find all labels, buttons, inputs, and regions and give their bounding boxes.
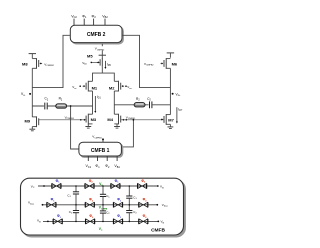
svg-text:M5: M5 [87,53,93,58]
M9 label [25,118,31,123]
wire M9 gate to M3 gate (V_CMFB1) [39,119,86,121]
transistor M9 [32,116,38,127]
pin label VC1 (CMFB1 input) [85,164,91,169]
transistor M8 [32,58,38,69]
wire rail A [38,185,158,187]
node V_B right of rail A [157,185,164,190]
ground M3 [85,124,91,128]
net label V_o (green, rail A) [99,182,103,187]
switch phi1 rail B [113,202,122,207]
M5 label [87,53,93,58]
resistor R2 left [56,104,67,108]
clock label phi2 [89,179,94,184]
capacitor C2 col3 lower [126,205,132,222]
junction left branch [70,105,72,107]
wire right comp branch [114,104,170,106]
VDD supply M8 [29,54,36,59]
C2 label [106,210,110,215]
switch phi2 rail C [85,219,94,224]
V_CMFB1 left arrow [80,119,86,121]
clock label phi2 [143,214,148,219]
capacitor C1 col2 [100,186,106,205]
switch phi2 rail B [139,202,148,207]
M5 gate wire V_b0 [92,61,100,63]
pin label VB2 (CMFB2 input) [102,14,108,19]
wire first-stage right rail [113,91,115,114]
M7 label [168,118,174,123]
capacitor C2 col1 lower [73,205,79,222]
pin label Φ2 (CMFB2 input) [91,14,96,19]
wire CMFB1 left tap [71,106,79,149]
junction [102,185,104,187]
R2 label left [59,97,63,102]
clock label phi1 [51,198,56,203]
wire left output rail [31,68,33,117]
M4 label [107,117,113,122]
CMFB detail outer box [21,178,186,237]
junction [75,204,77,206]
svg-text:CMFB 2: CMFB 2 [87,32,106,38]
junction [129,221,131,223]
wire CMFB1 input tick [106,156,108,161]
C2 label [69,210,73,215]
ground M9 [29,127,35,131]
net label V_b0 [82,61,92,66]
svg-text:M7: M7 [168,118,174,123]
junction [75,221,77,223]
clock label phi1 [117,198,122,203]
M3 label [91,117,97,122]
pin label VC2 (CMFB2 input) [71,14,77,19]
junction right gate wire [133,119,135,121]
junction [75,185,77,187]
net label V_CMFB2 at M8 gate [44,62,54,67]
M1 label [92,85,98,90]
switch phi2 rail A [85,183,94,188]
V_CMFB1 right arrow [122,119,127,121]
clock label phi2 [89,198,94,203]
input label Vin+ [125,85,133,90]
M5 gate arrow [97,61,100,63]
switch phi1 rail C [53,219,62,224]
pin label Φ2 (CMFB1 input) [105,164,110,169]
wire rail B [43,204,158,206]
switch phi2 rail B [85,202,94,207]
clock label phi1 [57,214,62,219]
node V_bias right [156,203,168,208]
M2 gate arrow [122,85,125,87]
CMFB title [151,227,165,233]
node V_B right of rail C [157,220,164,225]
M8 label [22,62,28,67]
svg-text:M4: M4 [107,117,113,122]
node V_o- [21,92,31,97]
M6 gate arrow [161,62,164,64]
wire diff-pair yoke [93,73,115,81]
wire right output rail [169,68,171,114]
transistor M2 [114,81,120,92]
CMFB2 title [87,32,106,38]
wire CMFB2 right sense [122,35,170,87]
switch phi1 rail B [47,202,56,207]
clock label phi2 [89,214,94,219]
junction [102,204,104,206]
wire CMFB1 input tick [116,156,118,161]
svg-text:M8: M8 [22,62,28,67]
M1 gate arrow [83,85,86,87]
clock label phi2 [141,179,146,184]
wire V_CMFB2 output [101,44,103,55]
C1 label [106,194,110,199]
C1 label [133,195,137,200]
C2 label right [147,97,151,102]
M7 gate arrow [161,118,163,120]
svg-text:M3: M3 [91,117,97,122]
node V_o+ [172,92,181,97]
M2 label [109,85,115,90]
svg-text:M2: M2 [109,85,115,90]
pin label VB1 (CMFB1 input) [114,164,120,169]
svg-text:M1: M1 [92,85,98,90]
junction [102,221,104,223]
wire left comp branch [32,105,92,107]
switch phi1 rail A [111,183,120,188]
R2 label right [136,97,140,102]
node V_CMFB2 label [93,46,107,51]
net label V_o (green, below rail C) [99,227,103,232]
pin label Φ1 (CMFB1 input) [95,164,100,169]
current I_D1 [94,95,101,113]
wire CMFB2 input tick [104,19,106,26]
wire CMFB2 input tick [93,19,95,26]
pin label Φ1 (CMFB2 input) [82,14,87,19]
junction [129,185,131,187]
current I_D5 [104,61,111,69]
C1 label [67,193,71,198]
svg-text:M9: M9 [25,118,31,123]
wire CMFB2 left sense [32,35,70,87]
net label V_CMFB1 right [126,115,136,120]
switch phi2 rail A [137,183,146,188]
wire CMFB2 input tick [83,19,85,26]
transistor M6 [164,58,170,69]
svg-text:M6: M6 [172,62,178,67]
CMFB2 block box [70,25,123,44]
transistor M3 [86,114,92,125]
wire CMFB1 input tick [97,156,99,161]
C2 label [133,210,137,215]
node V_bias left [28,201,43,206]
clock label phi1 [56,179,61,184]
transistor M7 [164,114,170,125]
wire CMFB1 input tick [87,156,89,161]
VDD supply M6 [167,53,174,58]
wire rail C [43,220,158,222]
capacitor C2 right [149,101,153,108]
resistor R2 right [134,103,145,107]
transistor M1 [86,81,92,92]
node V_C [31,184,45,189]
wire CMFB2 input tick [73,19,75,26]
CMFB1 block box [79,142,123,157]
clock label phi1 [117,214,122,219]
capacitor C1 col1 [73,186,79,205]
ground M7 [168,124,174,128]
switch phi1 rail C [113,219,122,224]
capacitor C2 col2 lower [100,205,106,222]
svg-text:CMFB 1: CMFB 1 [91,148,110,154]
node V_CMFB1 above box [92,135,104,143]
svg-text:CMFB: CMFB [151,227,165,233]
net label V_CMFB1 left [65,115,75,120]
M5 source bar [99,54,106,56]
net label V_CMFB (green, rail B) [99,206,108,211]
CMFB1 title [91,148,110,154]
wire first-stage left rail [92,91,94,114]
input label Vin- [72,85,81,90]
net label V_CMFB2 at M6 gate [144,62,154,67]
wire M4 gate to M7 gate (V_CMFB1) [121,119,164,121]
M8 gate arrow [40,62,43,64]
junction [129,204,131,206]
C2 label left [45,97,49,102]
M6 label [172,62,178,67]
ground M4 [114,124,120,128]
clock label phi2 [143,198,148,203]
switch phi2 rail C [139,219,148,224]
current I_D7 [176,107,183,123]
capacitor C2 left [44,102,48,109]
wire CMFB1 right tap [121,120,133,147]
node V_B left [37,219,49,224]
clock label phi1 [115,179,120,184]
capacitor C1 col3 [126,186,132,205]
transistor M5 [100,55,102,73]
transistor M4 [114,114,120,125]
switch phi1 rail A [52,183,61,188]
